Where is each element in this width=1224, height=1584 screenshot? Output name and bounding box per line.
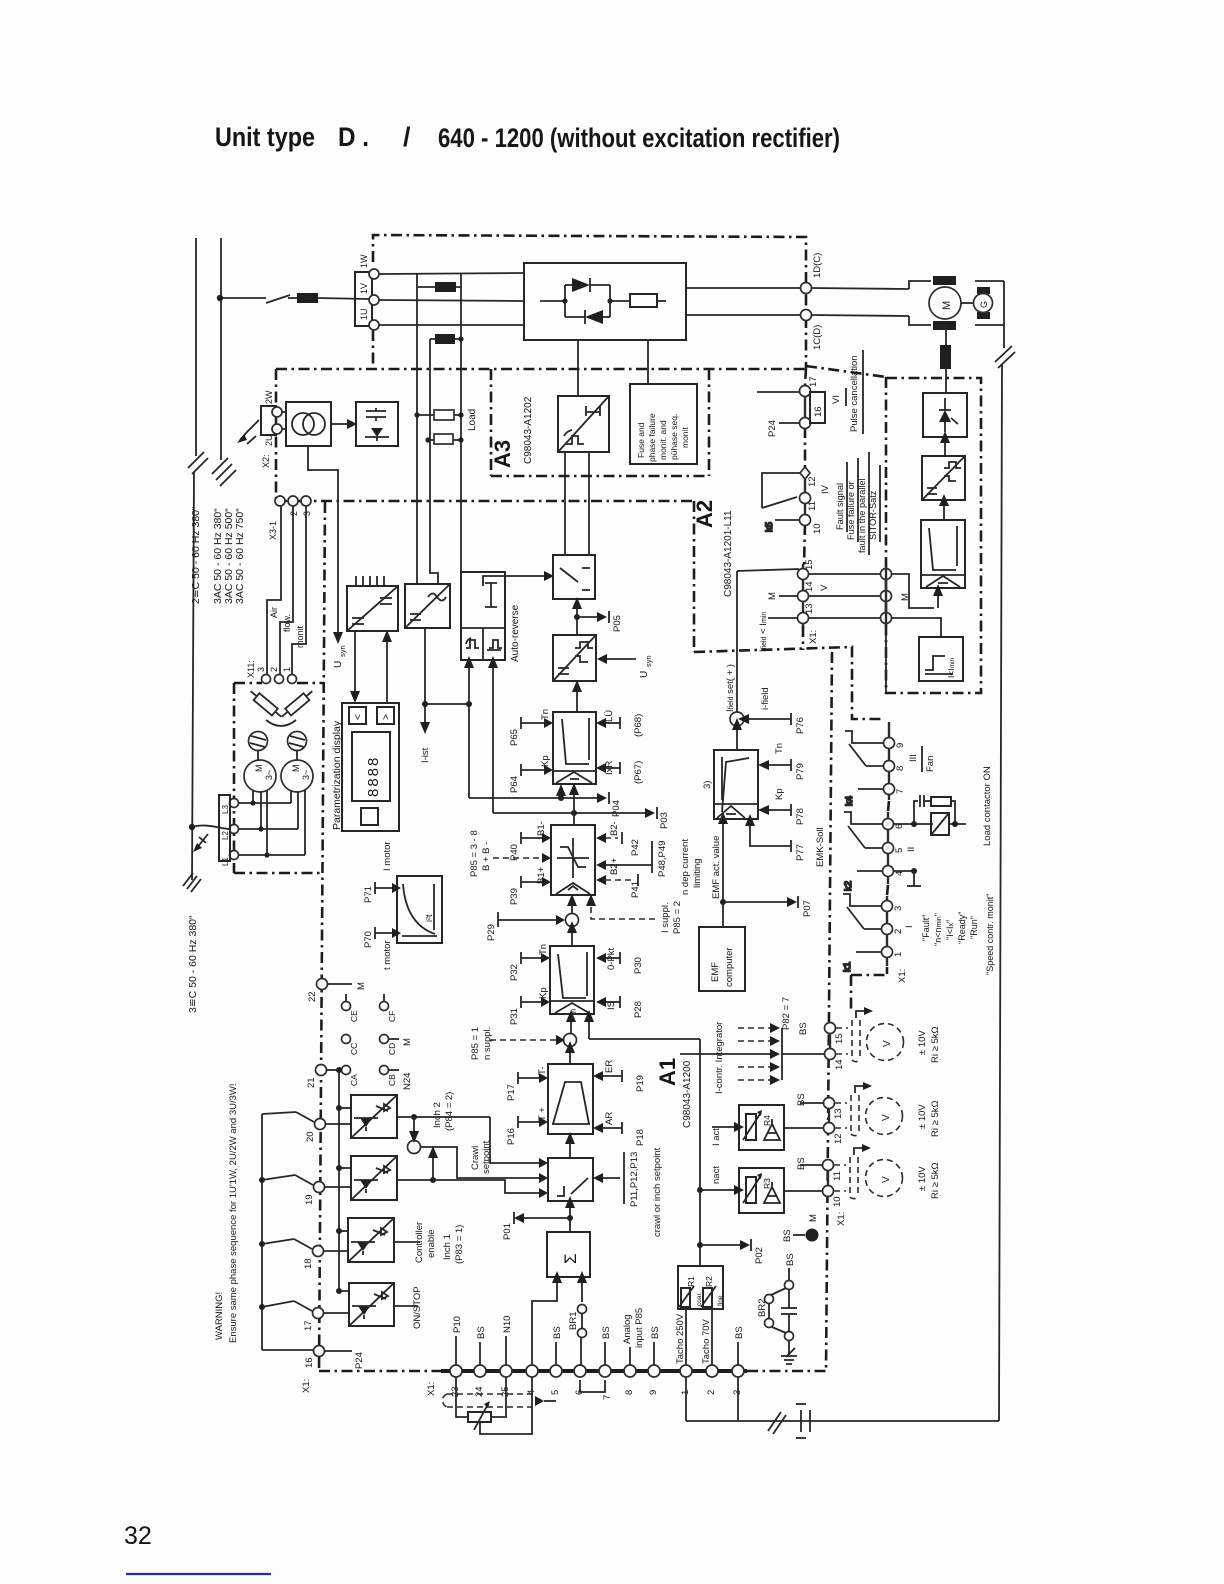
load fuse 2 [425, 434, 463, 444]
terminal X1:11b [823, 1160, 844, 1182]
actual current amplifier R4 [739, 1105, 784, 1150]
label VI pulse cancellation [831, 350, 863, 434]
P79 Tn input [758, 743, 806, 780]
svg-text:9: 9 [648, 1390, 659, 1395]
svg-text:B2-: B2- [609, 821, 620, 836]
svg-text:/: / [403, 122, 411, 152]
shielded cable 3 [834, 1157, 858, 1199]
terminal 1W [369, 269, 379, 279]
svg-text:V: V [881, 1176, 892, 1183]
terminal X1:18 [303, 1246, 348, 1270]
svg-text:R2: R2 [704, 1276, 714, 1287]
isolation point symbol [796, 1404, 810, 1438]
svg-text:monit: monit [680, 427, 690, 448]
svg-text:BS: BS [798, 1022, 809, 1035]
svg-text:G: G [979, 301, 989, 308]
fan symbol 1 [249, 732, 268, 751]
wire converter to gating unit [577, 340, 579, 396]
svg-text:M: M [767, 592, 778, 600]
LU (P68) input [596, 710, 644, 737]
svg-text:CD: CD [387, 1043, 397, 1055]
line end hatch [183, 873, 201, 892]
svg-text:Parametrization display: Parametrization display [331, 720, 343, 830]
contact at 17 [262, 1301, 312, 1311]
motor frame brackets [909, 281, 1004, 325]
svg-text:± 10V: ± 10V [917, 1166, 928, 1191]
svg-text:P24: P24 [354, 1352, 365, 1369]
svg-text:V: V [819, 584, 830, 591]
svg-text:Ri ≥ 5kΩ: Ri ≥ 5kΩ [930, 1026, 941, 1063]
parametrization display unit [342, 703, 399, 831]
sum inputs from terminals [532, 1271, 587, 1366]
setpoint potentiometer, shielded [443, 1377, 556, 1434]
SITOR current controller [921, 520, 965, 588]
terminal X1:17 [804, 385, 806, 429]
svg-text:17: 17 [808, 376, 819, 387]
svg-text:P31: P31 [509, 1008, 520, 1025]
A2 terminal bus 13-15 [802, 564, 804, 628]
wires to motor [811, 288, 909, 289]
load bridge 2 with reactor [430, 334, 464, 344]
terminal row X3-1 [268, 496, 312, 540]
svg-text:computer: computer [724, 947, 735, 987]
svg-text:EMF: EMF [710, 962, 721, 982]
svg-text:"Fault": "Fault" [921, 915, 931, 941]
svg-text:P85 = 2: P85 = 2 [672, 901, 683, 934]
terminal X1:3b [732, 1326, 745, 1395]
svg-text:3≌C 50 - 60 Hz 380“: 3≌C 50 - 60 Hz 380“ [187, 915, 199, 1013]
svg-text:2U: 2U [264, 434, 274, 446]
P18 AR input [593, 1112, 646, 1146]
terminal X1:12b [824, 1123, 845, 1145]
svg-text:P82 = 7: P82 = 7 [781, 997, 792, 1030]
svg-text:1W: 1W [359, 254, 369, 268]
svg-text:16: 16 [813, 406, 824, 417]
BR2 ground jumper with capacitor [757, 1253, 797, 1364]
svg-text:X1:: X1: [836, 1212, 847, 1226]
terminal X1:15 [798, 559, 816, 579]
display link up [382, 630, 392, 703]
svg-text:P32: P32 [509, 964, 520, 981]
svg-text:3AC 50 - 60 Hz 750“: 3AC 50 - 60 Hz 750“ [234, 508, 246, 604]
I2t motor model box [397, 876, 442, 943]
terminal X1:11 [800, 493, 819, 512]
load contactor circuit [893, 795, 966, 835]
svg-text:P16: P16 [506, 1128, 517, 1145]
P17 T- input [506, 1067, 548, 1101]
P11,P12,P13 input [593, 1152, 640, 1207]
terminal X1:22 [307, 979, 367, 1003]
terminal row X11 [246, 660, 297, 683]
opto feed bus [336, 1067, 351, 1294]
svg-text:7: 7 [602, 1395, 613, 1400]
board outline: main right edge [826, 652, 832, 1371]
svg-text:U: U [333, 661, 344, 668]
wire current controller to firing unit [572, 680, 582, 712]
setpoint limiter block B1/B2 [551, 825, 595, 895]
svg-text:pühase seq.: pühase seq. [669, 414, 679, 460]
svg-text:11: 11 [807, 501, 818, 511]
svg-text:13: 13 [833, 1108, 844, 1119]
svg-text:X1:: X1: [426, 1382, 437, 1396]
svg-text:flow.: flow. [282, 614, 292, 632]
svg-text:X1:: X1: [301, 1379, 312, 1393]
svg-text:P71: P71 [363, 886, 374, 903]
svg-text:C98043-A1202: C98043-A1202 [523, 396, 534, 464]
svg-text:I act: I act [711, 1128, 722, 1146]
svg-text:n suppl.: n suppl. [482, 1027, 493, 1060]
svg-text:syn: syn [644, 655, 653, 667]
svg-text:II: II [906, 847, 917, 852]
optocoupler U24 (on/stop) [349, 1283, 394, 1326]
svg-text:P29: P29 [486, 924, 497, 941]
terminal 1C(D) [801, 310, 812, 321]
svg-text:I: I [904, 925, 915, 928]
board outline: A3 box [490, 369, 493, 476]
B+ B- dashed select [469, 830, 551, 877]
P24 distribution bus [259, 1114, 314, 1350]
board outline: top converter section (dash-dot) [234, 235, 981, 1371]
terminal X1:14 [798, 581, 831, 601]
power interface converter (=/=) [347, 576, 398, 631]
svg-text:22: 22 [307, 991, 318, 1002]
svg-text:P79: P79 [795, 763, 806, 780]
svg-text:I suppl.: I suppl. [660, 902, 671, 933]
SITOR board left edge lower [885, 624, 887, 693]
terminal X1:20 [305, 1119, 351, 1143]
terminal X1:25 [500, 1316, 513, 1397]
svg-text:1: 1 [282, 667, 292, 672]
synchronizing converter (=/~) [405, 584, 450, 628]
selector inputs [539, 1158, 548, 1198]
svg-text:P02: P02 [754, 1247, 765, 1264]
svg-text:Tacho 250V: Tacho 250V [675, 1313, 686, 1364]
supply line L (2AC) [188, 238, 208, 880]
svg-text:C98043-A1200: C98043-A1200 [682, 1060, 693, 1128]
svg-text:P42: P42 [630, 839, 641, 856]
svg-text:U: U [639, 671, 650, 678]
setpoint selector switch [548, 1158, 593, 1201]
BS labels at A1 terminals [796, 1093, 824, 1170]
A1 terminal bus 10-15 [828, 1022, 830, 1197]
EMF computer box [699, 927, 745, 991]
X1 terminal strip bus [441, 1369, 747, 1373]
svg-text:± 10V: ± 10V [917, 1104, 928, 1129]
board outline: main left edge [319, 502, 325, 1371]
wire fuse to monitor [647, 340, 649, 384]
signal circles CE CC CA [342, 1002, 360, 1087]
svg-text:3~: 3~ [301, 770, 311, 780]
svg-text:IxR: IxR [604, 761, 615, 775]
display link down [350, 631, 360, 703]
terminal X1:6 [883, 819, 906, 830]
P64 Kp input [509, 755, 553, 793]
svg-text:limiting: limiting [692, 858, 703, 888]
svg-text:EMK-Soll: EMK-Soll [815, 827, 826, 867]
wire [288, 297, 297, 299]
svg-text:0-Pkt: 0-Pkt [606, 947, 617, 970]
fan fuse right [279, 688, 315, 721]
svg-text:P10: P10 [452, 1316, 463, 1333]
svg-text:IV: IV [820, 484, 831, 494]
svg-text:Tn: Tn [540, 709, 551, 720]
relay function labels [921, 894, 995, 975]
I lt Imin monitor [919, 637, 963, 681]
svg-text:P30: P30 [633, 957, 644, 974]
DC output wires [686, 287, 801, 289]
board outline: A2 bottom edge [694, 647, 884, 719]
svg-text:Fuse and: Fuse and [636, 422, 646, 458]
contact arc [266, 720, 296, 726]
switch contact [266, 295, 290, 303]
svg-text:X11:: X11: [246, 660, 256, 678]
terminal 2W [272, 407, 282, 417]
svg-text:3~: 3~ [264, 770, 274, 780]
svg-text:P24: P24 [767, 420, 778, 437]
svg-text:2: 2 [893, 929, 904, 934]
voltmeter 1 [867, 1024, 942, 1064]
fan motor wiring [239, 790, 305, 858]
svg-text:P78: P78 [795, 808, 806, 825]
wire to Imin monitor [891, 618, 941, 637]
P29 input [486, 912, 565, 941]
svg-text:10: 10 [832, 1196, 843, 1207]
terminal X1:13 [798, 603, 820, 644]
svg-text:input P85: input P85 [634, 1308, 645, 1348]
svg-text:640 - 1200 (without excitation: 640 - 1200 (without excitation rectifier… [438, 123, 840, 153]
relay contact k2 [843, 812, 883, 891]
I suppl dashed input [586, 894, 683, 934]
wire to controller input [891, 574, 943, 608]
P30 0-Pkt input [596, 947, 644, 974]
IxR (P67) input [596, 761, 644, 784]
load fuse 1 [414, 410, 463, 420]
svg-text:N10: N10 [502, 1316, 513, 1333]
svg-text:phase failure: phase failure [647, 413, 657, 462]
field summing circle [730, 712, 744, 750]
svg-text:P18: P18 [635, 1129, 646, 1146]
svg-text:CB: CB [387, 1074, 397, 1086]
terminal X1:7 [884, 784, 907, 795]
P85=1 dashed input [470, 1027, 565, 1060]
svg-text:>: > [381, 714, 392, 720]
thyristor pair inside converter [540, 278, 630, 324]
pulse cancel reactor [940, 325, 951, 393]
svg-text:2≌C 50 - 60 Hz 380“: 2≌C 50 - 60 Hz 380“ [190, 506, 202, 604]
optocoupler U22 (crawl) [351, 1156, 397, 1200]
summing amplifier [547, 1232, 590, 1277]
svg-text:P04: P04 [611, 800, 622, 817]
svg-text:2: 2 [289, 511, 299, 516]
svg-text:CF: CF [387, 1011, 397, 1022]
P78 Kp input [758, 788, 806, 825]
svg-text:3: 3 [256, 667, 266, 672]
svg-text:n dep current: n dep current [680, 839, 691, 895]
svg-text:V: V [882, 1040, 893, 1047]
svg-text:(P68): (P68) [633, 714, 644, 737]
line reactor (filled) [297, 293, 318, 303]
svg-text:X1:: X1: [808, 630, 819, 644]
svg-text:Ri ≥ 5kΩ: Ri ≥ 5kΩ [930, 1100, 941, 1137]
terminal X1:2 [882, 924, 916, 935]
junction on supply [217, 295, 223, 301]
terminal L3 [230, 799, 239, 808]
svg-text:"Run": "Run" [969, 916, 979, 939]
fan symbol 2 [288, 732, 307, 751]
svg-text:9: 9 [895, 743, 906, 748]
svg-text:13: 13 [804, 603, 815, 614]
terminal X1:10b [823, 1186, 848, 1227]
terminal X1:5 [883, 843, 918, 854]
svg-text:M: M [356, 982, 367, 990]
wire on/stop output [394, 1305, 418, 1307]
svg-text:2: 2 [269, 667, 279, 672]
svg-text:BS: BS [650, 1326, 661, 1339]
svg-text:1V: 1V [359, 283, 369, 294]
svg-text:P28: P28 [633, 1001, 644, 1018]
Usyn wire from transformer [308, 446, 347, 668]
air flow monitor wires [267, 506, 306, 674]
terminal X1:3 [882, 901, 905, 912]
svg-text:P41: P41 [630, 881, 641, 898]
BS M ground dot [782, 1214, 819, 1242]
k terminal bus [887, 722, 889, 966]
svg-text:Load contactor ON: Load contactor ON [982, 766, 993, 846]
terminal X1:13b [824, 1098, 845, 1120]
wire circle to selector [421, 1147, 539, 1178]
svg-text:X3-1: X3-1 [268, 521, 278, 540]
M stub at 14 [767, 592, 798, 600]
svg-text:I-ist: I-ist [420, 747, 431, 763]
svg-text:1C(D): 1C(D) [812, 325, 823, 350]
svg-text:(P83 = 1): (P83 = 1) [454, 1225, 465, 1264]
board outline: fan box [234, 682, 262, 685]
relay contact k1 [842, 894, 882, 972]
svg-text:k5: k5 [764, 522, 775, 532]
svg-text:BS: BS [734, 1326, 745, 1339]
svg-text:20: 20 [305, 1131, 316, 1142]
svg-text:nact: nact [711, 1166, 722, 1184]
svg-text:17: 17 [303, 1320, 314, 1331]
svg-text:R3: R3 [762, 1178, 772, 1189]
I-ist wire [420, 628, 472, 763]
svg-text:BS: BS [796, 1093, 807, 1106]
svg-text:BS: BS [601, 1326, 612, 1339]
svg-text:8: 8 [895, 766, 906, 771]
svg-text:12: 12 [807, 476, 818, 487]
svg-text:I-contr. Integrator: I-contr. Integrator [714, 1022, 725, 1094]
tacho matching resistors R1 R2 [678, 1266, 724, 1309]
svg-text:B1-: B1- [536, 821, 547, 836]
label Crawl setpoint [470, 1140, 492, 1174]
auto-reverse block [461, 572, 505, 660]
wire crawl output [397, 1146, 539, 1193]
svg-text:(P67): (P67) [633, 761, 644, 784]
reversing switch block [553, 555, 595, 599]
svg-text:V: V [881, 1114, 892, 1121]
svg-text:(P84 = 2): (P84 = 2) [444, 1092, 455, 1131]
svg-text:monit. and: monit. and [658, 420, 668, 460]
contact at 18 [262, 1239, 312, 1249]
svg-text:N24: N24 [402, 1073, 413, 1090]
svg-text:k1: k1 [842, 962, 853, 972]
wire to 1V [318, 298, 369, 299]
svg-text:P05: P05 [612, 615, 623, 632]
svg-text:Inch 1: Inch 1 [442, 1234, 453, 1260]
terminal 1D(C) [801, 283, 812, 294]
svg-text:Ri ≥ 5kΩ: Ri ≥ 5kΩ [930, 1162, 941, 1199]
arrow controller to firing [939, 494, 949, 520]
tacho brushes [977, 287, 990, 294]
svg-text:BS: BS [782, 1229, 793, 1242]
phase wires into converter [379, 273, 524, 325]
svg-text:M: M [254, 765, 264, 773]
SITOR firing unit [922, 456, 965, 500]
terminal X1:19 [304, 1182, 351, 1206]
terminal X1:8 [884, 761, 907, 772]
svg-text:BS: BS [796, 1157, 807, 1170]
svg-text:<: < [353, 714, 364, 720]
X2 connector shell [261, 406, 276, 435]
terminal 1U [369, 320, 379, 330]
tacho generator G [974, 294, 993, 313]
inputs to speed controller [566, 1010, 700, 1039]
label Inch 1 (P83=1) [442, 1225, 465, 1264]
board outline: X2 section left edge [275, 369, 278, 501]
terminal X1:10 [800, 515, 824, 535]
voltmeter 2 [866, 1098, 942, 1138]
motor return line [1003, 281, 1005, 348]
P70 input [363, 927, 401, 970]
P65 Tn input [509, 709, 553, 746]
svg-text:1U: 1U [359, 308, 369, 320]
svg-text:P65: P65 [509, 729, 520, 746]
svg-text:P76: P76 [795, 717, 806, 734]
terminal 1V [369, 295, 379, 305]
svg-text:LÜ: LÜ [604, 710, 615, 722]
relay contact k5 [762, 473, 800, 532]
terminal X1:21 [306, 1065, 341, 1089]
armature converter box [524, 263, 686, 340]
terminal L1 [230, 851, 239, 860]
svg-text:P11,P12,P13: P11,P12,P13 [629, 1152, 640, 1207]
svg-text:P85 = 1: P85 = 1 [470, 1027, 481, 1060]
terminal X1:1b [675, 1309, 692, 1395]
footer rule (blue) [126, 1573, 271, 1575]
svg-text:BR1: BR1 [568, 1312, 579, 1330]
terminal X1:16 with link box [767, 392, 825, 437]
P42 B2- input [596, 821, 641, 856]
svg-text:fine: fine [717, 1295, 724, 1306]
nact input [700, 1166, 744, 1195]
supply junction to fan [189, 824, 195, 830]
svg-text:14: 14 [804, 581, 815, 592]
Usyn input to firing unit [597, 654, 653, 678]
load bridge 1 with reactor [417, 273, 461, 292]
field controller block [702, 750, 758, 819]
svg-text:Ensure same phase sequence for: Ensure same phase sequence for 1U'1W, 2U… [228, 1084, 239, 1344]
svg-text:3: 3 [302, 511, 312, 516]
svg-text:19: 19 [304, 1194, 315, 1205]
terminal X1:9 [884, 738, 907, 749]
svg-text:I motor: I motor [382, 841, 393, 871]
wire to L2 [192, 825, 229, 829]
terminal X1:4 [883, 866, 906, 877]
svg-text:BS: BS [476, 1326, 487, 1339]
svg-text:10: 10 [812, 523, 823, 534]
voltmeter 3 [866, 1160, 942, 1200]
svg-text:syn: syn [338, 645, 347, 657]
